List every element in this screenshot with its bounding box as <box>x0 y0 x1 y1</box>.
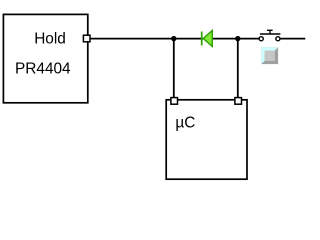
svg-text:PR4404: PR4404 <box>15 60 71 77</box>
svg-text:Hold: Hold <box>34 30 66 47</box>
wire switch to right edge <box>280 38 305 40</box>
node B junction dot <box>235 36 240 41</box>
wire junction B to uC pin 2 <box>237 39 239 98</box>
diode D1 (green LED, cathode left) <box>202 30 213 46</box>
wire Hold output to switch <box>88 38 259 40</box>
contact circle right <box>276 37 280 41</box>
IC U2 microcontroller box <box>166 100 247 179</box>
switch S1 push-button (normally open) <box>259 30 280 41</box>
IC U1 PR4404 box <box>3 14 87 102</box>
actuator stem <box>269 30 271 34</box>
svg-text:µC: µC <box>175 115 195 132</box>
actuator bar <box>260 33 281 35</box>
actuator cap <box>267 29 273 31</box>
wire junction A to uC pin 1 <box>173 39 175 98</box>
pin 2 of uC <box>235 98 242 105</box>
GUI push-button widget <box>261 47 278 64</box>
contact circle left <box>259 37 263 41</box>
node A junction dot <box>171 36 176 41</box>
pin Hold (on PR4404 right edge) <box>83 35 90 42</box>
pin 1 of uC <box>171 98 178 105</box>
